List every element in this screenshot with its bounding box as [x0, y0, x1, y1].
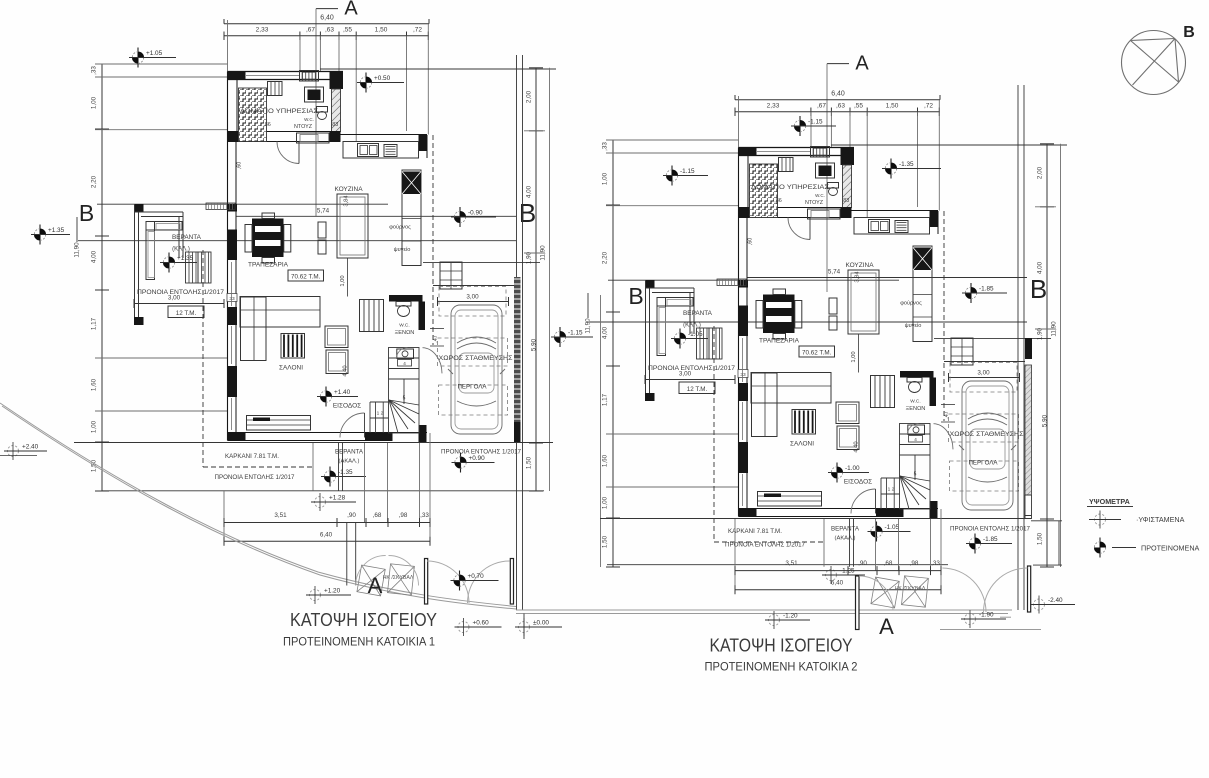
svg-text:±0.00: ±0.00	[533, 620, 549, 627]
svg-text:,83: ,83	[842, 198, 850, 204]
service room door arc house 2	[788, 218, 810, 240]
top overall dimension 6,40 house 1	[224, 23, 429, 25]
svg-text:-1.00: -1.00	[845, 465, 860, 472]
svg-text:A: A	[855, 53, 869, 75]
svg-text:B: B	[1030, 274, 1047, 304]
svg-text:,90: ,90	[858, 560, 867, 567]
lower line house 1	[102, 490, 544, 492]
window in top wall house 1	[246, 75, 300, 77]
top dim extension lines house 2	[738, 96, 740, 148]
top right extension line house 1	[320, 68, 556, 70]
entrance door arc house 2	[851, 489, 876, 514]
svg-text:,68: ,68	[373, 512, 382, 519]
stair entry steps house 2	[881, 477, 900, 479]
svg-text:+0.70: +0.70	[468, 573, 485, 580]
wall corner block top-left house 2	[739, 148, 757, 156]
svg-text:3,51: 3,51	[274, 512, 287, 519]
existing level marker -1.20	[765, 611, 810, 629]
svg-text:5,74: 5,74	[828, 269, 841, 276]
svg-text:,33: ,33	[420, 512, 429, 519]
svg-text:-1.90: -1.90	[979, 612, 994, 619]
svg-text:1,50: 1,50	[602, 535, 609, 548]
existing level marker -1.25	[822, 566, 865, 584]
veranda steps house 1	[186, 252, 199, 283]
dining chairs house 1	[245, 225, 252, 253]
svg-text:-0.90: -0.90	[468, 210, 483, 217]
svg-text:1,17: 1,17	[91, 317, 98, 330]
existing level marker ±0.00	[515, 618, 562, 636]
wall block below hatch house 1	[330, 132, 341, 143]
garbage enclosure walls house 1	[346, 523, 348, 586]
main staircase house 1	[389, 348, 420, 434]
elevation marker +0.90	[452, 453, 495, 473]
service room bottom wall house 2	[739, 207, 852, 209]
svg-text:ψυγείο: ψυγείο	[394, 247, 411, 253]
shower tray house 2	[808, 209, 841, 219]
left extension lines house 1	[95, 63, 228, 65]
elevation marker +0.50	[357, 73, 404, 93]
right chain bottom ticks house 2	[1031, 520, 1062, 522]
right extension ticks house 1	[524, 130, 545, 132]
left wall black segment y204 house 1	[228, 204, 238, 212]
gate swing arcs house 1	[427, 561, 469, 603]
svg-text:2,33: 2,33	[256, 27, 269, 34]
gate post right house 2	[1028, 566, 1031, 612]
svg-text:ΚΟΥΖΙΝΑ: ΚΟΥΖΙΝΑ	[334, 186, 363, 193]
svg-text:ΣΑΛΟΝΙ: ΣΑΛΟΝΙ	[790, 441, 814, 448]
elevation marker -1.85	[962, 283, 1007, 303]
guest wc basin house 2	[908, 425, 925, 435]
svg-text:3,00: 3,00	[977, 370, 990, 377]
svg-text:33: 33	[740, 372, 746, 378]
coffee table house 2	[792, 410, 816, 435]
svg-text:B: B	[1183, 24, 1195, 41]
svg-text:W.C.: W.C.	[304, 117, 314, 122]
right extension ticks house 2	[1035, 206, 1056, 208]
dim ,47 house 1	[430, 328, 444, 330]
left outer wall house 1	[227, 72, 229, 441]
left extension lines house 2	[606, 139, 739, 141]
left dimension chain house 2	[612, 140, 614, 567]
water heater house 1	[305, 87, 324, 102]
pergola dashed outline house 1	[439, 385, 508, 415]
svg-text:,98: ,98	[910, 560, 919, 567]
svg-text:ΗΚ /ΣΚΥΒΑΛ: ΗΚ /ΣΚΥΒΑΛ	[895, 586, 926, 592]
guest wc basin house 1	[397, 349, 414, 359]
svg-text:1,17: 1,17	[602, 393, 609, 406]
bottom wall block mid house 2	[876, 509, 904, 517]
elevation marker -1.00	[828, 463, 869, 483]
svg-text:5: 5	[914, 472, 917, 478]
kitchen burners house 1	[384, 145, 397, 157]
wc door arc house 1	[397, 348, 408, 359]
svg-text:+0.50: +0.50	[374, 75, 391, 82]
svg-text:1 2: 1 2	[888, 487, 895, 493]
svg-text:ΧΩΡΟΣ ΣΤΑΘΜΕΥΣΗΣ: ΧΩΡΟΣ ΣΤΑΘΜΕΥΣΗΣ	[950, 431, 1024, 438]
svg-text:,33: ,33	[931, 560, 940, 567]
car house 1	[448, 305, 505, 434]
wall block bottom-left of service room house 1	[228, 132, 239, 142]
wall corner block top-right of service room house 1	[330, 72, 344, 90]
kitchen small dim 1,00 house 2	[858, 334, 860, 373]
site boundary curve (double)	[2, 406, 516, 609]
svg-text:B: B	[628, 283, 643, 309]
service-room staircase zigzag house 1	[239, 88, 267, 142]
house2 outer-left chain line	[600, 295, 602, 567]
side steps house 1	[360, 300, 384, 332]
svg-text:,60: ,60	[237, 162, 243, 170]
elevation marker -1.85	[966, 534, 1012, 554]
veranda sofa house 2	[657, 298, 693, 307]
svg-text:-1.20: -1.20	[783, 613, 798, 620]
svg-text:ΒΕΡΑΝΤΑ: ΒΕΡΑΝΤΑ	[831, 526, 860, 533]
svg-text:ΠΡΟΤΕΙΝΟΜΕΝΗ ΚΑΤΟΙΚΙΑ 1: ΠΡΟΤΕΙΝΟΜΕΝΗ ΚΑΤΟΙΚΙΑ 1	[283, 635, 435, 649]
svg-text:4: 4	[914, 437, 917, 442]
svg-text:11,90: 11,90	[585, 318, 592, 334]
svg-text:4,00: 4,00	[1037, 261, 1044, 274]
svg-text:6,40: 6,40	[831, 91, 845, 98]
svg-text:3,84: 3,84	[855, 271, 861, 283]
veranda parapet house 2	[645, 280, 647, 401]
guest wc top wall house 2	[900, 371, 934, 378]
svg-text:1,60: 1,60	[91, 378, 98, 391]
dining table house 1	[252, 219, 284, 258]
elevation marker -1.15	[791, 116, 836, 136]
left wall black segment y229.5 house 2	[739, 306, 749, 337]
svg-text:,72: ,72	[924, 103, 933, 110]
stair direction box house 2	[909, 436, 923, 443]
right wall top block house 1	[419, 135, 428, 151]
carport left edge dashed house 1	[432, 135, 434, 345]
sofa house 1	[240, 297, 320, 328]
svg-text:-1.15: -1.15	[568, 330, 583, 337]
service room door arc house 1	[277, 142, 299, 164]
veranda top corner block house 1	[134, 204, 144, 212]
kitchen island house 2	[848, 270, 879, 334]
svg-text:12 Τ.Μ.: 12 Τ.Μ.	[176, 310, 197, 317]
svg-text:B: B	[519, 198, 536, 228]
svg-text:ΚΑΡΚΑΝΙ 7.81 Τ.Μ.: ΚΑΡΚΑΝΙ 7.81 Τ.Μ.	[225, 453, 279, 460]
svg-text:33: 33	[229, 296, 235, 302]
carport entry steps house 1	[440, 262, 462, 289]
planter box above wall house 1	[300, 71, 319, 82]
top sub dimension chain house 1	[224, 35, 429, 37]
left wall black segment y229.5 house 1	[228, 230, 238, 261]
stair direction box house 1	[398, 360, 412, 367]
svg-text:1,50: 1,50	[886, 103, 899, 110]
stair winders house 2	[900, 476, 930, 481]
svg-text:4: 4	[403, 361, 406, 366]
svg-text:,67: ,67	[817, 103, 826, 110]
svg-text:1,00: 1,00	[340, 275, 346, 286]
svg-text:ΝΤΟΥΖ: ΝΤΟΥΖ	[805, 200, 824, 206]
lower line house 2	[607, 564, 948, 566]
svg-text:,72: ,72	[413, 27, 422, 34]
elevation marker -1.35	[321, 467, 366, 487]
guest wc right wall house 1	[419, 302, 426, 331]
section line B-B house 2	[608, 279, 899, 281]
veranda bottom corner block house 1	[134, 317, 144, 325]
kitchen counter house 1	[343, 142, 419, 159]
sofa house 2	[751, 373, 831, 404]
svg-text:,67: ,67	[306, 27, 315, 34]
armchair 2 house 2	[837, 426, 859, 450]
svg-text:70.62 Τ.Μ.: 70.62 Τ.Μ.	[291, 274, 321, 281]
wall block bottom-left of service room house 2	[739, 208, 750, 218]
bottom overall dim 6,40 house 1	[224, 540, 430, 542]
svg-text:·ΥΦΙΣΤΑΜΕΝΑ: ·ΥΦΙΣΤΑΜΕΝΑ	[1136, 515, 1185, 524]
left wall black segment y307 house 2	[739, 383, 749, 401]
svg-text:W.C.: W.C.	[399, 323, 409, 329]
eaves dashed outline house 1	[202, 250, 204, 467]
svg-text:-1.35: -1.35	[338, 469, 353, 476]
svg-text:5,90: 5,90	[531, 338, 538, 351]
guest wc toilet house 1	[396, 302, 411, 307]
line below kitchen to chain house 2	[934, 338, 1051, 340]
svg-text:-1.35: -1.35	[899, 161, 914, 168]
svg-text:5: 5	[403, 396, 406, 402]
svg-text:3,51: 3,51	[785, 560, 798, 567]
svg-text:ΥΨΟΜΕΤΡΑ: ΥΨΟΜΕΤΡΑ	[1089, 497, 1130, 506]
dim ,47 house 2	[941, 404, 955, 406]
carport upper dashed box house 2	[950, 363, 1017, 393]
wall corner block top-left house 1	[228, 72, 246, 80]
svg-text:,33: ,33	[602, 142, 609, 151]
svg-text:,55: ,55	[854, 103, 863, 110]
svg-text:,63: ,63	[836, 103, 845, 110]
top overall dimension 6,40 house 2	[735, 99, 940, 101]
svg-text:1,50: 1,50	[375, 27, 388, 34]
gate swing arcs house 2	[942, 568, 986, 612]
svg-text:1,60: 1,60	[602, 454, 609, 467]
svg-text:1 2: 1 2	[377, 411, 384, 417]
svg-text:4,00: 4,00	[526, 185, 533, 198]
kitchen small dim 1,00 house 1	[347, 258, 349, 297]
elevation marker +0.70	[451, 571, 499, 591]
north symbol circle	[1122, 31, 1186, 95]
armchair 1 house 1	[325, 326, 348, 348]
svg-text:6,40: 6,40	[831, 580, 844, 587]
wc toilet service house 1	[317, 107, 328, 113]
kitchen top wall line house 1	[332, 134, 428, 136]
line below kitchen to chain house 1	[423, 262, 540, 264]
svg-text:1,00: 1,00	[602, 496, 609, 509]
svg-text:,47: ,47	[433, 335, 439, 343]
svg-text:3,00: 3,00	[466, 294, 479, 301]
existing level marker +1.28	[311, 493, 356, 511]
top wall house 1	[228, 71, 344, 73]
carport middle dashed box house 2	[949, 414, 1019, 442]
carport left edge dashed house 2	[943, 211, 945, 421]
wall thickness label 33 house 1	[227, 294, 237, 302]
gate post left house 1	[425, 559, 428, 605]
svg-text:φούρνος: φούρνος	[900, 301, 922, 307]
service-room shelf house 1	[268, 82, 283, 96]
main staircase house 2	[900, 424, 931, 510]
svg-text:4,00: 4,00	[91, 250, 98, 263]
entrance door arc house 1	[340, 413, 365, 438]
svg-text:ΠΡΟΝΟΙΑ ΕΝΤΟΛΗΣ 1/2017: ΠΡΟΝΟΙΑ ΕΝΤΟΛΗΣ 1/2017	[725, 542, 806, 549]
right dimension chain house 1	[535, 68, 537, 491]
stair entry steps house 1	[370, 401, 389, 403]
elevation marker -0.90	[451, 207, 496, 227]
svg-text:ΞΕΝΩΝ: ΞΕΝΩΝ	[906, 406, 926, 412]
svg-text:ΕΙΣΟΔΟΣ: ΕΙΣΟΔΟΣ	[333, 403, 361, 410]
svg-text:+0.60: +0.60	[473, 620, 490, 627]
svg-text:ΠΡΟΝΟΙΑ ΕΝΤΟΛΗΣ 1/2017: ΠΡΟΝΟΙΑ ΕΝΤΟΛΗΣ 1/2017	[648, 365, 736, 372]
existing level marker +1.20	[306, 586, 351, 604]
stair door arc to carport house 1	[423, 348, 443, 374]
veranda steps house 2	[697, 328, 710, 359]
svg-text:,47: ,47	[944, 411, 950, 419]
bin door arcs house 2	[859, 576, 893, 610]
left wall windows house 2	[742, 338, 744, 382]
top sub dimension chain house 2	[735, 111, 940, 113]
svg-text:2,00: 2,00	[526, 90, 533, 103]
service room right wall hatched house 2	[843, 165, 852, 208]
bottom wall house 2	[739, 508, 939, 510]
svg-text:2,00: 2,00	[1037, 166, 1044, 179]
service-room shelf house 2	[779, 158, 794, 172]
svg-text:1,00: 1,00	[91, 96, 98, 109]
bottom dim chain house 1	[224, 522, 430, 524]
svg-text:ΚΑΤΟΨΗ ΙΣΟΓΕΙΟΥ: ΚΑΤΟΨΗ ΙΣΟΓΕΙΟΥ	[710, 636, 853, 656]
svg-text:1,50: 1,50	[1037, 532, 1044, 545]
svg-text:,86: ,86	[774, 198, 782, 204]
svg-text:1,50: 1,50	[526, 456, 533, 469]
guest wc toilet house 2	[907, 378, 922, 383]
svg-text:,60: ,60	[748, 238, 754, 246]
svg-text:6,40: 6,40	[320, 532, 333, 539]
boundary line along road	[516, 609, 1012, 611]
coffee table house 1	[281, 334, 305, 359]
kitchen sink house 1	[358, 144, 379, 157]
svg-text:ΒΕΡΑΝΤΑ: ΒΕΡΑΝΤΑ	[683, 310, 713, 317]
area 12 TM box house 1	[168, 306, 204, 318]
planter strip above veranda wall house 2	[717, 279, 746, 286]
svg-text:,63: ,63	[325, 27, 334, 34]
svg-text:,83: ,83	[331, 122, 339, 128]
service room bottom wall house 1	[228, 131, 341, 133]
svg-text:ΠΡΟΝΟΙΑ ΕΝΤΟΛΗΣ 1/2017: ΠΡΟΝΟΙΑ ΕΝΤΟΛΗΣ 1/2017	[137, 289, 225, 296]
left wall black segment y307 house 1	[228, 307, 238, 325]
svg-text:ΝΤΟΥΖ: ΝΤΟΥΖ	[294, 124, 313, 130]
svg-text:-1.85: -1.85	[979, 286, 994, 293]
existing level marker	[1091, 511, 1109, 529]
bottom overall dim 6,40 house 2	[735, 589, 941, 591]
bottom verticals house 1	[312, 443, 314, 491]
svg-text:ψυγείο: ψυγείο	[905, 323, 922, 329]
elevation marker -1.15	[663, 166, 708, 186]
water heater house 2	[816, 163, 835, 178]
svg-text:ΕΙΣΟΔΟΣ: ΕΙΣΟΔΟΣ	[844, 479, 872, 486]
svg-text:ΠΡΟΝΟΙΑ ΕΝΤΟΛΗΣ 1/2017: ΠΡΟΝΟΙΑ ΕΝΤΟΛΗΣ 1/2017	[215, 474, 296, 481]
tall kitchen cabinet house 2	[913, 246, 932, 342]
pergola dashed outline house 2	[950, 461, 1019, 491]
tv cabinet house 2	[758, 492, 822, 507]
svg-text:-1.85: -1.85	[983, 536, 998, 543]
tv cabinet house 1	[247, 416, 311, 431]
veranda bottom corner block house 2	[645, 393, 655, 401]
section line B-B house 1	[97, 203, 388, 205]
right dimension chain house 2	[1046, 144, 1048, 567]
svg-text:+1.35: +1.35	[48, 227, 65, 234]
shower tray house 1	[297, 133, 330, 143]
existing level marker +2.40	[4, 442, 47, 460]
svg-text:+1.05: +1.05	[146, 50, 163, 57]
existing level marker -2.40	[1030, 596, 1075, 614]
svg-text:B: B	[79, 200, 94, 226]
bottom wall block right house 1	[419, 425, 427, 443]
armchair 1 house 2	[836, 402, 859, 424]
svg-text:A: A	[344, 0, 358, 20]
guest wc top wall house 1	[389, 295, 423, 302]
elevation marker +1.35	[160, 253, 197, 273]
svg-text:ΠΕΡΓΟΛΑ: ΠΕΡΓΟΛΑ	[968, 460, 998, 467]
svg-text:4,40: 4,40	[343, 365, 349, 376]
carport middle dashed box house 1	[438, 338, 508, 366]
svg-text:+1.20: +1.20	[324, 588, 341, 595]
kitchen sink house 2	[869, 220, 890, 233]
existing level marker +0.60	[455, 618, 502, 636]
svg-text:ΤΡΑΠΕΖΑΡΙΑ: ΤΡΑΠΕΖΑΡΙΑ	[759, 338, 800, 345]
left wall black segment y366 house 1	[228, 366, 238, 397]
left wall windows house 1	[231, 262, 233, 306]
garbage bins house 1	[357, 564, 414, 596]
veranda parapet house 1	[134, 204, 136, 325]
svg-text:+2.40: +2.40	[22, 444, 39, 451]
svg-text:(ΑΚΑΛ.): (ΑΚΑΛ.)	[339, 459, 360, 465]
top wall house 2	[739, 147, 855, 149]
right overall dimension 11,90 house 2	[1060, 144, 1062, 567]
dining table house 2	[763, 295, 795, 334]
svg-text:12 Τ.Μ.: 12 Τ.Μ.	[687, 386, 708, 393]
section mark A top, house 1	[316, 8, 338, 10]
armchair 2 house 1	[326, 350, 348, 374]
svg-text:ΔΩΜΑΤΙΟ ΥΠΗΡΕΣΙΑΣ: ΔΩΜΑΤΙΟ ΥΠΗΡΕΣΙΑΣ	[751, 184, 829, 191]
svg-text:ΠΡΟΤΕΙΝΟΜΕΝΗ ΚΑΤΟΙΚΙΑ 2: ΠΡΟΤΕΙΝΟΜΕΝΗ ΚΑΤΟΙΚΙΑ 2	[705, 660, 858, 674]
stair winders house 1	[389, 400, 419, 405]
svg-text:ΗΚ /ΣΚΥΒΑΛ: ΗΚ /ΣΚΥΒΑΛ	[383, 575, 414, 581]
svg-text:W.C.: W.C.	[910, 399, 920, 405]
section mark A top, house 2	[827, 63, 849, 65]
svg-text:-1.05: -1.05	[885, 524, 900, 531]
bottom wall corner block left house 2	[739, 509, 757, 517]
ground line house 2	[600, 518, 1031, 520]
svg-text:ΚΟΥΖΙΝΑ: ΚΟΥΖΙΝΑ	[845, 262, 874, 269]
svg-text:ΚΑΡΚΑΝΙ 7.81 Τ.Μ.: ΚΑΡΚΑΝΙ 7.81 Τ.Μ.	[728, 528, 782, 535]
carport upper dashed box house 1	[439, 287, 506, 317]
kitchen burners house 2	[895, 221, 908, 233]
wall block below hatch house 2	[841, 208, 852, 219]
elevation marker	[1094, 538, 1106, 558]
side steps house 2	[871, 376, 895, 408]
service room right wall hatched house 1	[332, 89, 341, 132]
svg-text:5,90: 5,90	[1042, 414, 1049, 427]
left dimension chain house 1	[101, 64, 103, 491]
svg-text:ΧΩΡΟΣ ΣΤΑΘΜΕΥΣΗΣ: ΧΩΡΟΣ ΣΤΑΘΜΕΥΣΗΣ	[439, 355, 513, 362]
carport entry steps house 2	[951, 338, 973, 365]
elevation marker -1.15	[551, 327, 593, 347]
svg-text:(ΑΚΑΛ.): (ΑΚΑΛ.)	[835, 536, 856, 542]
bin door arcs house 1	[356, 556, 386, 586]
svg-text:-1.05: -1.05	[688, 331, 703, 338]
top right extension line house 2	[831, 144, 1067, 146]
elevation marker +1.05	[129, 48, 176, 68]
carport right boundary wall striped house 1	[514, 277, 521, 422]
eaves dashed outline house 2	[713, 326, 715, 542]
bottom wall house 1	[228, 432, 428, 434]
